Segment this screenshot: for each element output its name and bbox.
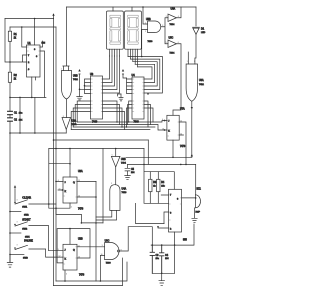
svg-text:10u: 10u (19, 113, 23, 115)
svg-text:U6B: U6B (121, 158, 126, 161)
inverter U5C (168, 40, 177, 48)
pin ticks U7A (167, 121, 179, 137)
flip-flop U7A 7476 (167, 115, 179, 140)
svg-text:R4: R4 (161, 182, 165, 184)
wire: 555 bottom pins to y=97.4 (20, 77, 36, 133)
pin ticks 555 U10 (169, 195, 182, 228)
ground: between U3 and U4 (119, 94, 123, 101)
svg-text:3: 3 (36, 56, 38, 58)
svg-text:BZ1: BZ1 (197, 188, 202, 191)
capacitor C1 (8, 111, 13, 114)
svg-text:PAUSE: PAUSE (24, 239, 33, 243)
svg-text:5: 5 (112, 155, 113, 157)
svg-text:R1: R1 (14, 33, 18, 36)
wire: y=222.9 line (81, 222, 103, 224)
svg-text:1k: 1k (153, 185, 156, 187)
wire: bottom loop lines (54, 258, 128, 286)
svg-text:U2A: U2A (78, 170, 83, 173)
wire: bus rail x=53.5 down left side (53, 19, 55, 286)
svg-text:4: 4 (58, 180, 59, 182)
pin ticks 555 U1 (27, 47, 40, 70)
svg-text:9: 9 (111, 183, 112, 185)
capacitor C5 (125, 164, 130, 175)
wire: U7A right pins (179, 122, 186, 164)
svg-text:7408: 7408 (148, 41, 154, 43)
svg-text:U8A: U8A (72, 120, 77, 123)
svg-text:CLEAR: CLEAR (22, 196, 31, 200)
ground: under BZ1 (192, 208, 197, 223)
svg-text:1: 1 (61, 69, 62, 71)
wire: U2A right pins (77, 181, 96, 197)
wire: x=103 drop from big rect (102, 149, 104, 223)
wire: U2B bottom pin to bottom loop (64, 270, 66, 281)
svg-text:SW1: SW1 (22, 207, 28, 209)
svg-text:104: 104 (19, 119, 23, 121)
power: VCC arrow above U4 (123, 74, 127, 78)
svg-text:14: 14 (78, 196, 80, 198)
svg-text:7421: 7421 (73, 79, 79, 81)
svg-text:6: 6 (66, 274, 67, 276)
svg-text:U7A: U7A (180, 108, 185, 111)
ground: bottom right (159, 273, 165, 285)
svg-text:U2B: U2B (78, 238, 83, 241)
resistor R3 (149, 172, 151, 204)
svg-text:Q: Q (73, 250, 75, 252)
svg-text:J: J (65, 182, 66, 184)
wire: U3 lower right pins to mid bus (103, 101, 125, 130)
svg-text:11: 11 (78, 245, 80, 247)
svg-text:15: 15 (78, 180, 80, 182)
flip-flop U2A 7476 (63, 177, 77, 203)
wire: timing network rect (144, 140, 174, 203)
wire: U3 left pin bundle (85, 79, 91, 94)
wire: rail B horizontal y=27 (10, 26, 56, 28)
capacitor C3 (150, 245, 154, 273)
svg-text:C2: C2 (14, 119, 18, 121)
svg-text:U8B: U8B (73, 75, 78, 78)
wire: y=273.3 bottom line (152, 272, 174, 274)
svg-text:6: 6 (178, 42, 179, 44)
svg-text:7476: 7476 (78, 209, 84, 211)
wire: R1/R2 rail x=10 (9, 27, 11, 262)
wire: CLEAR lower contact stub (10, 211, 21, 213)
power: VCC arrow above CLEAR (14, 189, 16, 203)
svg-text:1: 1 (187, 61, 188, 63)
svg-text:2: 2 (68, 69, 69, 71)
LED D1 (193, 26, 200, 28)
svg-text:14: 14 (180, 133, 182, 135)
wire: U5B lower input from x=141.7 (142, 30, 148, 57)
IC U1 555 timer box (27, 45, 41, 77)
svg-text:7: 7 (28, 55, 30, 57)
svg-text:3: 3 (17, 245, 18, 247)
svg-text:16: 16 (59, 189, 61, 191)
ground: under C5 (125, 176, 131, 180)
wire: U3C lower input (100, 255, 104, 281)
capacitor C4 (160, 245, 164, 273)
wire: x=96 rail (95, 181, 97, 281)
wire: U4 left pin bundle (127, 78, 133, 94)
svg-text:15: 15 (180, 120, 182, 122)
wire: top rail right end down to LS1 (195, 7, 197, 26)
wire: U8A output down to y=133 (65, 130, 67, 134)
svg-text:K: K (65, 259, 67, 261)
svg-text:7404: 7404 (170, 53, 176, 55)
wire: CLEAR rail x=48.8 (49, 149, 56, 209)
wire: y=245.1 line (151, 224, 194, 245)
wire: U6B input from big rect top (115, 149, 117, 157)
wire: top-left corner drop to vertical AND gate inputs (63, 7, 69, 71)
svg-text:7421: 7421 (199, 84, 205, 86)
svg-text:7400: 7400 (106, 263, 112, 265)
capacitor C2 (8, 118, 13, 121)
inverter U6B pointing down (111, 156, 120, 167)
svg-text:2: 2 (170, 229, 172, 231)
svg-text:C3: C3 (156, 255, 160, 257)
svg-text:10k: 10k (161, 185, 165, 187)
wire: y=157.3 line to U6A output (126, 156, 192, 158)
wire: U4 lower left pins to mid bus (127, 101, 133, 127)
wire: U6A output down with arrow (191, 101, 193, 157)
svg-text:U3C: U3C (105, 240, 110, 243)
gate U4A vertical NAND (110, 185, 120, 211)
wire: horizontal y=97.4 (10, 96, 46, 98)
node: junction rail joins R1R2 rail (9, 61, 11, 63)
wire: top rail drop to displays (113, 7, 132, 11)
svg-text:4: 4 (178, 16, 179, 18)
display DS1 7-segment (107, 11, 124, 49)
resistor R4 (157, 172, 159, 204)
svg-text:RSP: RSP (196, 212, 201, 214)
svg-text:7404: 7404 (170, 24, 176, 26)
pin numbers U5B (17, 16, 195, 275)
wire: horizontal y=140 (54, 139, 149, 141)
svg-text:16: 16 (162, 128, 164, 130)
svg-text:2: 2 (28, 62, 30, 64)
display DS1 legs (110, 49, 120, 56)
svg-text:R2: R2 (14, 74, 18, 77)
flip-flop U2B 7476 (63, 244, 77, 270)
wire: trigger line y=223.6 (136, 203, 164, 223)
svg-text:6: 6 (170, 213, 172, 215)
wire: horizontal y=133 (10, 132, 66, 134)
gate U8B vertical AND top-left (62, 71, 72, 100)
wire: 555 II bottom pin (174, 232, 176, 245)
pin ticks U2B (64, 247, 78, 264)
display DS2 legs (128, 49, 138, 67)
svg-text:SW2: SW2 (24, 214, 29, 216)
pin ticks U2A (64, 181, 78, 197)
wire: drop from top rail to U5B input (143, 7, 148, 24)
wire: U6B output to U4A (115, 167, 117, 185)
svg-text:3: 3 (162, 25, 163, 27)
svg-text:2: 2 (71, 207, 72, 209)
wire: U5A output up to top rail (177, 7, 182, 18)
svg-text:3: 3 (17, 221, 18, 223)
svg-text:LED: LED (201, 32, 206, 34)
gate U6A 4-input AND vertical (186, 64, 197, 101)
svg-text:10: 10 (101, 254, 103, 256)
gate U3C NAND (105, 243, 119, 260)
wire: U2B right pins (77, 246, 105, 248)
svg-text:10: 10 (78, 257, 80, 259)
IC U3 7448 decoder box (91, 76, 103, 119)
svg-text:U6A: U6A (199, 79, 204, 82)
svg-text:D1: D1 (201, 28, 205, 31)
svg-text:3: 3 (63, 116, 64, 118)
wire: U2B top pin (69, 229, 71, 245)
svg-text:1: 1 (145, 23, 146, 25)
svg-text:104: 104 (165, 258, 169, 260)
svg-text:8: 8 (121, 249, 122, 251)
svg-text:C4: C4 (165, 255, 169, 257)
power: VCC arrow above U3 (80, 74, 85, 97)
wire: U4 lower right pins to mid bus (144, 101, 153, 127)
wire: segment bus U4 to DS2 nested elbows (128, 57, 162, 94)
svg-text:9: 9 (58, 249, 59, 251)
wire: U2A left pins (56, 181, 63, 190)
svg-text:Q: Q (73, 182, 75, 184)
wire: mid bus line y=124.5 (75, 125, 164, 131)
svg-text:8: 8 (34, 49, 36, 51)
wire: y=163.7 line (49, 163, 70, 165)
wire: mid bus line y=127 (73, 126, 155, 128)
wire: START lower contact stub (10, 232, 21, 234)
wire: LED down to U6A input (188, 34, 196, 64)
svg-text:J: J (168, 121, 169, 123)
svg-text:SW4: SW4 (25, 236, 30, 238)
svg-text:4: 4 (162, 119, 163, 121)
svg-text:U5A: U5A (171, 8, 176, 11)
node: mid bus junctions (116, 121, 117, 122)
wire: U5C output down right side (173, 44, 181, 116)
wire: FF2 wire loop (57, 229, 90, 263)
svg-text:3: 3 (17, 200, 18, 202)
svg-text:1k: 1k (14, 79, 17, 81)
IC U4 7448 decoder box (132, 77, 144, 119)
svg-text:U1: U1 (28, 42, 32, 45)
wire: segment bus U3 to DS1 (103, 56, 120, 93)
svg-text:5: 5 (166, 42, 167, 44)
wire: 555 pin feeds from rails (22, 19, 35, 48)
svg-text:7476: 7476 (180, 146, 186, 148)
svg-text:SW2: SW2 (22, 228, 28, 230)
svg-text:2: 2 (194, 61, 195, 63)
power: VCC arrow at x=53.5 (53, 15, 55, 19)
wire: 555 II left pins (158, 195, 169, 228)
svg-text:104: 104 (131, 172, 135, 174)
svg-text:U4: U4 (132, 74, 136, 77)
inverter U5A (168, 14, 177, 22)
wire: y=164.4 line (128, 163, 196, 165)
wire: U3C output up to 555 trigger (120, 227, 153, 251)
buzzer BZ1 (195, 195, 197, 208)
wire: PAUSE lower contact stub (10, 253, 24, 255)
svg-text:START: START (22, 217, 31, 221)
wire: U3 lower left pins to mid bus (71, 101, 90, 130)
pin ticks U3 (91, 79, 103, 112)
wire: U2A top pin vertical (69, 149, 71, 178)
wire: big rect top y=148.5 (49, 148, 144, 150)
svg-text:1k: 1k (14, 38, 17, 40)
svg-text:7404: 7404 (121, 163, 127, 165)
svg-text:SW3: SW3 (23, 257, 29, 259)
wire: U5B output to inverters (161, 18, 168, 44)
wire: rail A left edge x=5 (5, 19, 10, 63)
svg-text:3: 3 (166, 16, 167, 18)
wire: U7A left pins with bubbles (165, 121, 167, 131)
svg-text:2: 2 (145, 31, 146, 33)
svg-text:U5C: U5C (169, 37, 174, 40)
wire: 555 left pins stubs (10, 55, 27, 62)
wire: VCC top rail y=7 (67, 6, 197, 8)
wire: 555 II output to speaker (182, 164, 196, 198)
svg-text:K: K (168, 131, 170, 133)
wire: U4A outputs down-left (96, 210, 117, 220)
display DS1 segments (110, 15, 121, 44)
wire: VCC rail A horizontal y=18.5 (5, 18, 54, 20)
wire: U7A bottom pin (172, 140, 174, 157)
ground: switch rail ground (7, 254, 13, 267)
IC U10 555 timer box (169, 189, 182, 232)
wire: U2A bottom pin Z-route (56, 203, 81, 223)
svg-text:K: K (65, 191, 67, 193)
display DS2 7-segment (125, 11, 142, 49)
svg-text:9: 9 (102, 245, 103, 247)
svg-text:7476: 7476 (79, 275, 85, 277)
svg-text:C1: C1 (14, 113, 18, 115)
ground: below U3 VCC stub (77, 97, 83, 100)
gate U5B AND (148, 21, 161, 33)
svg-text:555: 555 (183, 240, 188, 242)
wire: mid bus line y=122 (77, 121, 164, 123)
wire: 555 output to x=44 rail (40, 41, 45, 97)
inverter U8A pointing down (62, 118, 71, 130)
svg-text:U5B: U5B (146, 18, 151, 21)
svg-text:U3: U3 (90, 73, 94, 76)
wire: bus rail x=56 down (55, 27, 57, 281)
display DS2 segments (128, 15, 139, 44)
wire: mid bus line y=129.5 (71, 129, 150, 131)
resistor R2 (8, 72, 11, 82)
svg-text:7: 7 (170, 195, 172, 197)
wire: U8B output down (66, 99, 68, 118)
resistor R1 (8, 31, 11, 41)
svg-text:C5: C5 (131, 169, 135, 171)
wire: x=174.6 down leg (174, 245, 176, 273)
svg-text:7413: 7413 (122, 192, 128, 194)
svg-text:U4A: U4A (122, 188, 127, 191)
svg-text:J: J (65, 250, 66, 252)
svg-text:10u: 10u (156, 258, 160, 260)
svg-text:3: 3 (177, 199, 179, 201)
svg-text:12: 12 (59, 256, 61, 258)
pin ticks U4 (133, 79, 145, 112)
node: junction on top rail at x=143 (142, 6, 144, 8)
